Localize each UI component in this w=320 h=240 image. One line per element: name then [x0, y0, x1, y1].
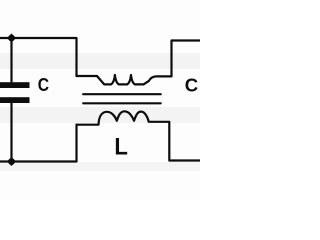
transformer core lines of choke L [83, 93, 161, 95]
node junction dot (bottom rail / cap branch) [7, 157, 16, 166]
svg-text:L: L [114, 133, 128, 160]
node junction dot (top rail / cap branch) [7, 33, 16, 42]
wire: capacitor C to bottom rail [10, 103, 12, 162]
inductor L bottom winding (lower line of common-mode choke) [77, 111, 201, 160]
capacitor C (left), top plate [0, 82, 30, 88]
inductor L top winding (upper line of common-mode choke) [77, 41, 201, 85]
wire: top-left horizontal rail into choke left vertical [0, 38, 77, 76]
wire: left branch down to capacitor C [10, 38, 12, 82]
capacitor C (left), bottom plate [0, 97, 30, 103]
svg-text:C: C [185, 74, 198, 95]
wire: bottom-left horizontal rail into choke left vertical [0, 125, 77, 162]
svg-text:C: C [38, 74, 49, 95]
